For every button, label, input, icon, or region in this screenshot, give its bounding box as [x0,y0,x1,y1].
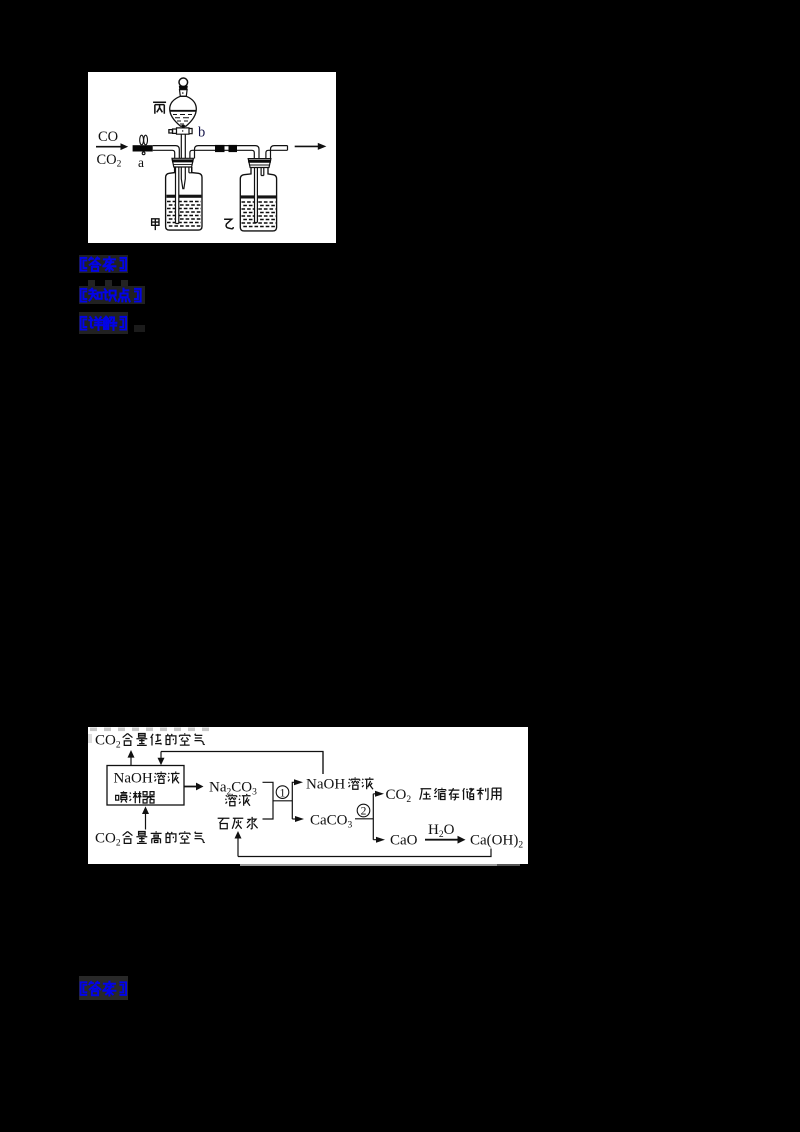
clamp wings above valve [140,135,148,155]
funnel stopper neck [180,90,188,97]
rubber connector segments (black) [215,145,237,152]
wire: main tube left segment into bottle jia [153,146,180,159]
svg-text:Ca(OH)2: Ca(OH)2 [470,833,523,851]
liquid dashes in funnel [173,115,192,125]
wire: recycle line from NaOH solution back to sprayer [161,752,323,775]
bottle yi outlet stub [261,168,264,176]
svg-text:CaCO3: CaCO3 [310,813,353,831]
label DA-AN 2 (blue answer marker) [79,976,128,1000]
node: circled step 1 [276,786,289,799]
funnel stem tip inside jia [181,158,185,189]
bottle jia liquid surface [166,195,201,198]
svg-text:Na2CO3: Na2CO3 [209,780,257,798]
wire: outlet tube from bottle jia [190,146,215,159]
node text: Na2CO3 solution [209,780,257,798]
svg-text:NaOH: NaOH [114,771,153,787]
label a [138,155,144,170]
node: circled step 2 [357,804,370,817]
bottle jia liquid hatch [167,202,201,227]
arrow: CaO to Ca(OH)2 with H2O [425,836,466,844]
svg-text:CO: CO [98,129,118,145]
node text: CaO [390,833,418,849]
wire: outlet tube from bottle yi [266,146,288,159]
wire: NaOH solution up to recycle line [322,752,324,775]
wire: CaCO3 to step 2 bracket [355,818,373,820]
wire: bracket splitting to CO2 and CaO [373,794,377,840]
pinch clamp a (black valve block) [133,145,153,151]
stopcock body b [173,128,193,134]
svg-text:b: b [198,125,205,141]
bottle jia inlet tube (long, into liquid) [176,159,179,224]
bottle jia neck and body [166,167,202,230]
separating funnel ring [179,78,188,87]
box: NaOH sprayer [107,766,184,806]
bottle yi neck and body [240,168,276,231]
label CO2 [97,152,122,170]
arrow: high-CO2 air up into sprayer box [142,806,149,829]
liquid surface in funnel [170,110,196,112]
bottle yi liquid surface [241,195,276,198]
arrow: recycle up into limewater [235,831,242,857]
funnel bulb [170,96,197,126]
bottle jia rubber stopper [172,158,194,167]
node: grey shadow strip below flowchart panel [240,864,497,867]
node text: CO2 compressed storage use [386,787,412,805]
node text: CO2 low content air [95,733,121,751]
outlet arrow [295,143,327,150]
svg-text:a: a [138,155,144,170]
bottle jia outlet stub [189,167,192,173]
arrow: sprayer to Na2CO3 solution [184,783,204,791]
label CO [98,129,118,145]
label ZHI-SHI-DIAN (blue knowledge marker) [79,286,145,304]
label DA-AN 1 (blue answer marker) [79,255,128,273]
wire: tube into bottle yi [237,146,259,159]
node: grey artifact blocks above answer label 2 [88,280,95,286]
bottle yi rubber stopper [248,159,271,168]
svg-text:1: 1 [280,787,286,799]
label yi [224,219,233,229]
wire: tube between connectors [225,146,229,151]
panel: CO2 capture flowchart image [88,727,528,864]
node text: limewater [218,817,258,829]
label jia [152,219,159,230]
arrow: recycle down into sprayer box [158,752,165,766]
arrow: box up to low-CO2 air [128,750,135,765]
node text: Ca(OH)2 [470,833,523,851]
grey scan artifacts at panel top [88,728,209,744]
svg-text:2: 2 [361,806,367,818]
node text: NaOH solution (product) [306,777,345,793]
label b [198,125,205,141]
wire: bracket joining Na2CO3 and limewater [263,782,274,819]
bottle yi inlet tube (long, into liquid) [255,159,258,223]
label bing [153,102,166,113]
label XIANG-JIE (blue detail marker) [79,312,128,334]
wire: connector to step 1 [273,800,292,802]
funnel stem [181,134,185,158]
svg-text:CaO: CaO [390,833,418,849]
funnel outlet tick [182,125,185,128]
inlet gas arrow [96,143,128,150]
stopcock knob [169,130,173,133]
funnel stopper collar (black) [179,86,188,90]
wire: Ca(OH)2 recycle down and left to limewater [238,849,491,857]
node text: CaCO3 [310,813,353,831]
bottle yi liquid hatch [242,202,276,227]
panel: apparatus diagram image [88,72,336,243]
svg-text:NaOH: NaOH [306,777,345,793]
node text: CO2 high content air [95,831,121,849]
wire: bracket splitting to NaOH solution and CaCO3 [292,782,296,819]
